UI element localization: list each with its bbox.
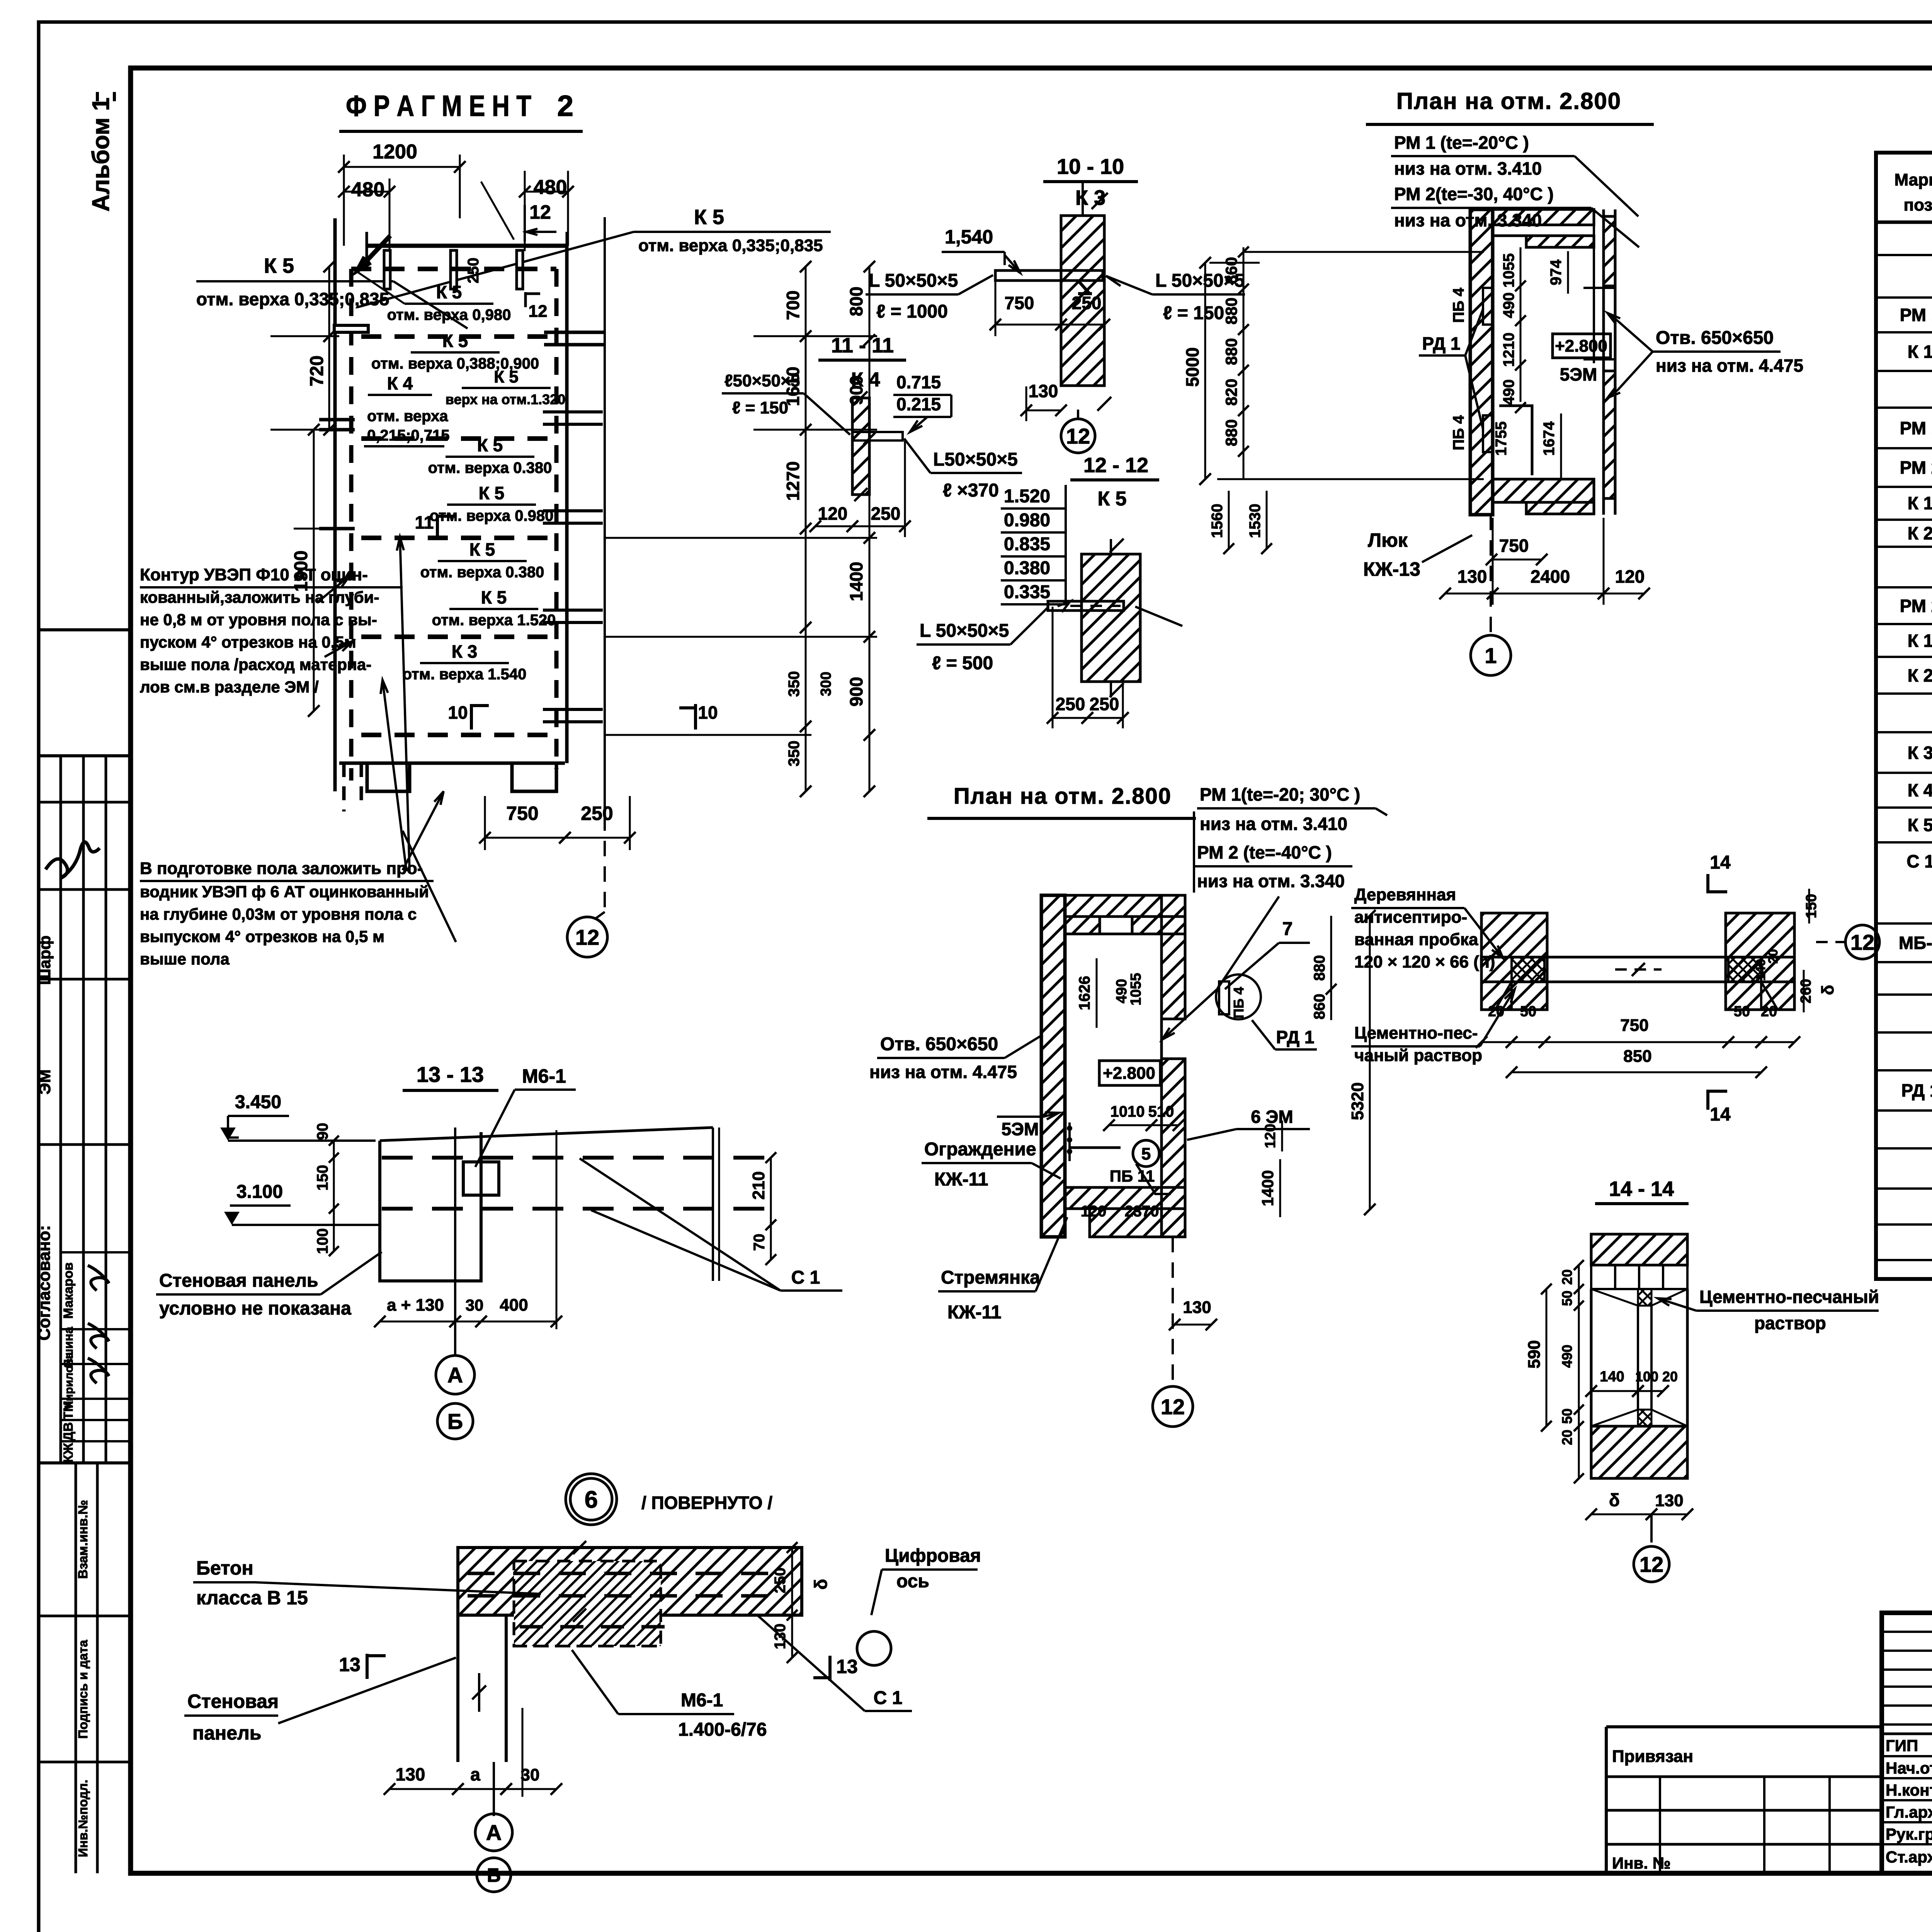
svg-text:ℓ = 1000: ℓ = 1000 [876,301,948,322]
svg-text:Цементно-пес-: Цементно-пес- [1354,1024,1478,1043]
svg-text:К 2: К 2 [1908,523,1932,543]
svg-text:70: 70 [751,1234,768,1251]
svg-text:отм. верха 0.380: отм. верха 0.380 [428,459,552,476]
13-13 right dims [718,1128,720,1281]
svg-text:0.715: 0.715 [896,372,941,392]
svg-text:Люк: Люк [1368,529,1408,551]
svg-text:12: 12 [575,925,599,949]
svg-text:3.450: 3.450 [235,1092,281,1112]
svg-text:А: А [486,1820,502,1845]
svg-text:750: 750 [506,803,538,824]
svg-text:20: 20 [1559,1430,1575,1445]
svg-text:Рук.гр.: Рук.гр. [1886,1825,1932,1843]
title block outline [1882,1613,1932,1873]
plug detail left block [1481,913,1547,1010]
svg-text:ванная пробка: ванная пробка [1354,930,1478,949]
svg-text:3.100: 3.100 [236,1182,283,1202]
axis 13-13 [454,1128,456,1349]
approval signatures [84,1265,111,1293]
svg-text:антисептиро-: антисептиро- [1354,908,1467,927]
svg-text:М6-1: М6-1 [522,1065,566,1087]
svg-text:Б: Б [487,1864,501,1886]
svg-text:Взам.инв.№: Взам.инв.№ [76,1500,90,1579]
svg-text:верх на отм.1.320: верх на отм.1.320 [446,391,565,407]
svg-text:1: 1 [1485,643,1497,668]
svg-text:низ на отм. 3.410: низ на отм. 3.410 [1200,814,1347,834]
svg-text:низ на отм. 3.410: низ на отм. 3.410 [1394,158,1542,179]
svg-text:480: 480 [534,176,567,199]
svg-text:250: 250 [465,258,482,284]
svg-text:К 5: К 5 [1097,488,1126,510]
svg-text:1755: 1755 [1493,422,1510,456]
svg-text:К 1: К 1 [1908,631,1932,651]
svg-text:раствор: раствор [1754,1313,1826,1333]
node 6 step [514,1645,661,1648]
svg-text:выше пола /расход материа-: выше пола /расход материа- [140,655,371,673]
plan top opening right [1593,209,1595,363]
svg-text:ПБ 4: ПБ 4 [1450,415,1467,451]
svg-text:низ на отм. 3.340: низ на отм. 3.340 [1197,871,1345,891]
svg-text:480: 480 [351,179,385,201]
section 12-12 plate [1048,601,1124,611]
svg-text:5ЭМ: 5ЭМ [1560,364,1597,384]
svg-text:Стеновая панель: Стеновая панель [159,1270,318,1291]
svg-text:12: 12 [529,302,548,321]
svg-text:К 3: К 3 [1908,743,1932,763]
svg-text:490: 490 [1500,293,1517,318]
svg-text:880: 880 [1222,419,1240,446]
svg-text:низ на отм. 4.475: низ на отм. 4.475 [869,1062,1017,1082]
node 6 embedded zone [514,1561,661,1646]
svg-text:отм. верха: отм. верха [367,408,448,425]
svg-text:Гл.арх.: Гл.арх. [1886,1803,1932,1821]
svg-text:590: 590 [1525,1340,1544,1368]
node 6 rebar dashes [468,1572,495,1575]
svg-text:Нач.ота.: Нач.ота. [1886,1759,1932,1777]
svg-text:510: 510 [1148,1103,1174,1120]
section 10-10 wall [1061,216,1104,386]
svg-text:К 5: К 5 [694,206,724,229]
svg-text:Контур УВЭП Ф10 АТ оцин-: Контур УВЭП Ф10 АТ оцин- [140,565,368,584]
svg-text:К 1: К 1 [1908,342,1932,362]
svg-text:а + 130: а + 130 [387,1296,444,1315]
svg-text:12: 12 [1639,1552,1663,1577]
section 14-14 left dims [1578,1265,1580,1478]
svg-text:Цифровая: Цифровая [885,1546,981,1566]
left dimension chain [328,267,330,336]
svg-text:ЭМ: ЭМ [36,1070,54,1095]
svg-text:1010: 1010 [1111,1103,1145,1120]
svg-text:720: 720 [307,355,327,386]
svg-text:5ЭМ: 5ЭМ [1002,1119,1039,1139]
svg-text:130: 130 [396,1764,425,1784]
svg-text:К 5: К 5 [442,331,468,351]
fragment 2 dashed chamber lines [361,334,556,339]
svg-text:250: 250 [1090,694,1119,714]
svg-text:130: 130 [1183,1298,1211,1317]
svg-text:900: 900 [846,677,866,707]
fragment 2 leader into plan [481,182,514,240]
rebar rows 13-13 [382,1156,413,1160]
svg-text:260: 260 [1798,979,1814,1003]
svg-text:1.400-6/76: 1.400-6/76 [678,1719,767,1740]
svg-text:Альбом 1: Альбом 1 [88,97,114,211]
svg-text:Стремянка: Стремянка [941,1267,1040,1288]
svg-text:1400: 1400 [846,562,866,601]
node 6 right dims [791,1548,793,1615]
svg-text:ПБ 4: ПБ 4 [1231,987,1247,1019]
plan top walls [1470,209,1493,515]
svg-text:на глубине 0,03м от уровня по: на глубине 0,03м от уровня пола с [140,905,417,923]
svg-text:2370: 2370 [1125,1203,1159,1220]
svg-text:300: 300 [818,672,834,696]
svg-text:L 50×50×5: L 50×50×5 [920,621,1009,641]
svg-text:ДВ: ДВ [61,1422,76,1441]
svg-text:0.980: 0.980 [1004,510,1050,531]
svg-text:6: 6 [585,1486,598,1513]
svg-text:В подготовке пола заложить про: В подготовке пола заложить про- [140,859,423,878]
svg-text:КЖ: КЖ [61,1443,76,1463]
svg-text:К 5: К 5 [481,587,507,607]
svg-text:ТМ: ТМ [61,1401,76,1420]
node 6 wall below [456,1615,459,1762]
+2.800 center box [1099,1061,1160,1085]
svg-text:1055: 1055 [1500,253,1517,288]
svg-text:+2.800: +2.800 [1103,1064,1155,1083]
svg-text:Б: Б [447,1409,463,1434]
svg-text:Подпись и дата: Подпись и дата [76,1640,90,1739]
svg-text:поз.: поз. [1904,196,1932,214]
svg-text:490: 490 [1114,979,1130,1003]
svg-text:1.520: 1.520 [1004,486,1050,507]
svg-text:отм. верха 0,980: отм. верха 0,980 [387,306,511,323]
panel 13-13 outline [380,1132,481,1281]
svg-text:860: 860 [1222,257,1240,284]
svg-text:РМ 2: РМ 2 [1900,596,1932,616]
svg-text:0.380: 0.380 [1004,558,1050,578]
node 6 slab [458,1548,802,1615]
svg-text:панель: панель [192,1722,262,1744]
svg-text:не 0,8 м от уровня пола с вы-: не 0,8 м от уровня пола с вы- [140,611,377,629]
svg-text:План на отм. 2.800: План на отм. 2.800 [954,784,1172,809]
plan top left dim chains [1204,263,1206,479]
svg-text:150: 150 [314,1165,331,1191]
svg-text:820: 820 [1222,379,1240,406]
svg-text:К 5: К 5 [264,254,294,277]
svg-text:С 1: С 1 [1906,851,1932,871]
node 6 mark [570,1478,612,1520]
plan center bottom wall [1065,1187,1185,1209]
svg-text:ПБ 4: ПБ 4 [1450,287,1467,323]
svg-text:750: 750 [1620,1016,1648,1035]
svg-text:0.215: 0.215 [896,394,941,414]
svg-text:Макаров: Макаров [61,1262,76,1319]
svg-text:700: 700 [783,291,803,320]
svg-text:РМ 2: РМ 2 [1900,457,1932,478]
svg-text:Отв. 650×650: Отв. 650×650 [880,1034,998,1054]
svg-text:К 4: К 4 [1908,780,1932,800]
svg-text:ось: ось [896,1571,929,1592]
svg-text:Цементно-песчаный: Цементно-песчаный [1699,1287,1879,1307]
svg-text:а: а [470,1764,480,1784]
M6-1 box [463,1162,499,1195]
svg-text:5: 5 [1141,1145,1151,1163]
svg-text:490: 490 [1500,379,1517,405]
svg-text:кованный,заложить на глуби-: кованный,заложить на глуби- [140,588,379,606]
svg-text:20: 20 [1559,1269,1575,1285]
svg-text:Ограждение: Ограждение [924,1139,1036,1160]
svg-text:130: 130 [1458,566,1487,587]
dashed top row [351,267,556,271]
plug detail triangles [1495,982,1512,1009]
svg-text:250: 250 [1072,293,1102,313]
svg-text:РМ 1: РМ 1 [1900,418,1932,438]
svg-text:1674: 1674 [1541,421,1558,456]
svg-text:750: 750 [1005,293,1034,313]
svg-text:20: 20 [1488,1003,1504,1020]
svg-text:12: 12 [1066,424,1090,448]
svg-text:100: 100 [314,1228,331,1254]
svg-text:+2.800: +2.800 [1555,337,1607,355]
svg-text:13 - 13: 13 - 13 [417,1062,484,1087]
svg-text:отм. верха 0.380: отм. верха 0.380 [420,564,544,581]
svg-text:850: 850 [1623,1047,1651,1066]
section 11-11 plate [852,432,903,440]
svg-text:14: 14 [1710,1104,1731,1125]
svg-text:РД 1: РД 1 [1422,333,1461,354]
section 14-14 top wall [1591,1234,1687,1265]
svg-text:К 5: К 5 [479,483,504,503]
axis circle 1 [1490,515,1492,634]
svg-text:2400: 2400 [1531,566,1570,587]
svg-text:7: 7 [1282,919,1293,939]
svg-text:120: 120 [818,503,848,524]
13-13 left dims [333,1141,335,1251]
svg-text:250: 250 [772,1568,789,1594]
svg-text:400: 400 [500,1296,528,1315]
svg-text:КЖ-11: КЖ-11 [934,1169,988,1190]
svg-text:0,215;0,715: 0,215;0,715 [367,427,450,444]
svg-text:1400: 1400 [1259,1170,1277,1206]
lower stamp sections [39,1461,131,1464]
svg-text:30: 30 [521,1765,540,1784]
svg-text:А: А [447,1363,463,1387]
svg-text:350: 350 [786,741,803,767]
svg-text:К 5: К 5 [436,282,462,302]
plan top inner dims [1520,247,1522,402]
svg-text:РМ 1(te=-20; 30°C ): РМ 1(te=-20; 30°C ) [1200,784,1360,804]
svg-text:250: 250 [871,503,901,524]
svg-text:13: 13 [339,1654,361,1675]
svg-text:50: 50 [1520,1003,1536,1020]
svg-text:лов см.в разделе ЭМ /: лов см.в разделе ЭМ / [140,678,319,696]
section 12-12 wall [1082,554,1140,682]
svg-text:120: 120 [1081,1203,1107,1220]
svg-text:М6-1: М6-1 [681,1690,723,1711]
svg-text:11: 11 [415,512,434,532]
svg-text:ГИП: ГИП [1886,1736,1918,1755]
svg-text:С 1: С 1 [874,1688,903,1708]
svg-text:12: 12 [529,201,551,223]
svg-text:120: 120 [1262,1124,1279,1148]
svg-text:δ: δ [811,1579,831,1590]
svg-text:РМ 1 (te=-20°C ): РМ 1 (te=-20°C ) [1394,133,1529,153]
svg-text:50: 50 [1559,1408,1575,1424]
section 14-14 cells [1590,1265,1592,1289]
svg-text:Привязан: Привязан [1612,1747,1693,1766]
svg-text:13: 13 [836,1656,858,1677]
svg-text:выпуском 4° отрезков на 0,5 м: выпуском 4° отрезков на 0,5 м [140,927,384,946]
svg-text:К 1: К 1 [1908,493,1932,513]
svg-text:140: 140 [1753,959,1768,981]
svg-text:750: 750 [1499,536,1529,556]
svg-text:100: 100 [1635,1369,1658,1384]
svg-text:класса В 15: класса В 15 [196,1587,308,1609]
PB4 detail circle center [1216,975,1261,1019]
svg-text:974: 974 [1548,259,1565,285]
svg-text:1626: 1626 [1076,976,1093,1010]
svg-text:РД 1: РД 1 [1901,1080,1932,1100]
svg-text:12: 12 [1850,930,1874,954]
svg-text:отм. верха 0,335;0,835: отм. верха 0,335;0,835 [638,236,823,255]
svg-text:К 3: К 3 [452,641,477,662]
svg-text:1200: 1200 [372,141,417,163]
svg-text:12 - 12: 12 - 12 [1083,454,1148,477]
left stamp strip [39,628,131,631]
svg-text:1270: 1270 [783,461,803,501]
svg-text:С 1: С 1 [791,1267,820,1288]
ladder symbol [1068,1122,1071,1161]
svg-text:1530: 1530 [1247,504,1264,538]
svg-text:δ: δ [1818,985,1837,995]
plan top bottom cap [1493,479,1594,502]
svg-text:1,540: 1,540 [945,226,993,248]
svg-text:К 5: К 5 [1908,815,1932,835]
svg-text:отм. верха 1.520: отм. верха 1.520 [432,612,556,629]
node 6 break mark [478,1673,480,1712]
svg-text:50: 50 [1734,1003,1750,1020]
svg-text:250: 250 [581,803,613,824]
svg-text:Шарф: Шарф [36,935,54,985]
svg-text:Инв.№подл.: Инв.№подл. [76,1780,90,1857]
fragment 2 bracket marks on right wall [543,410,603,413]
svg-text:12: 12 [1161,1395,1185,1419]
thick arrow to dashed corner [357,236,390,270]
section mark 12 bottom [604,815,606,912]
svg-text:5000: 5000 [1182,347,1202,387]
signature squiggle top [46,842,100,878]
fragment 2 plan bottom [339,762,565,765]
svg-text:0.335: 0.335 [1004,582,1050,602]
spec table grid [1876,153,1932,1279]
svg-text:14 - 14: 14 - 14 [1609,1177,1674,1201]
svg-text:0.835: 0.835 [1004,534,1050,554]
svg-text:10 - 10: 10 - 10 [1057,154,1124,179]
plan center right dims [1330,916,1332,1020]
right dimension chains [805,267,807,791]
leader arrows from notes [403,831,456,942]
svg-text:14: 14 [1710,852,1731,873]
svg-text:L 50×50×5: L 50×50×5 [869,270,958,291]
svg-text:L50×50×5: L50×50×5 [933,449,1018,470]
svg-text:20: 20 [1761,1003,1777,1020]
svg-text:860: 860 [1311,994,1328,1020]
svg-text:Отв. 650×650: Отв. 650×650 [1656,328,1774,348]
svg-text:ℓ ×370: ℓ ×370 [943,480,999,501]
svg-text:5320: 5320 [1348,1082,1367,1120]
svg-text:МБ-1: МБ-1 [1899,933,1932,953]
svg-text:чаный раствор: чаный раствор [1354,1046,1482,1065]
svg-text:План на отм. 2.800: План на отм. 2.800 [1396,88,1621,114]
circle 12 plug [1845,925,1879,959]
svg-text:К 3: К 3 [1075,186,1105,209]
svg-text:К 5: К 5 [477,435,503,455]
+2.800 box [1553,334,1611,358]
circle 12 under 10-10 [1061,419,1095,453]
svg-text:выше пола: выше пола [140,950,230,968]
privyazan annex [1606,1725,1882,1728]
plan center walls [1041,895,1065,1237]
svg-text:РД 1: РД 1 [1276,1027,1315,1047]
plug detail member [1481,956,1794,959]
svg-text:отм. верха 1.540: отм. верха 1.540 [403,666,527,683]
node 6 axis circles [493,1762,495,1816]
svg-text:150: 150 [1803,894,1820,918]
svg-text:490: 490 [1559,1345,1575,1368]
svg-text:Ф Р А Г М Е Н Т: Ф Р А Г М Е Н Т [346,90,531,122]
svg-text:1560: 1560 [1209,504,1226,538]
svg-text:ℓ50×50×5: ℓ50×50×5 [724,371,800,390]
svg-text:Бетон: Бетон [196,1557,253,1579]
svg-text:Н.контр.: Н.контр. [1886,1781,1932,1799]
svg-text:пуском 4° отрезков на 0,5м: пуском 4° отрезков на 0,5м [140,633,356,651]
svg-text:КЖ-11: КЖ-11 [947,1302,1001,1323]
svg-text:Согласовано:: Согласовано: [35,1225,54,1341]
section 14-14 bottom wall [1591,1426,1687,1478]
svg-text:К 5: К 5 [494,367,519,386]
section 14-14 shaft [1590,1289,1593,1426]
svg-text:6 ЭМ: 6 ЭМ [1251,1107,1293,1127]
svg-text:Ст.арх.: Ст.арх. [1886,1848,1932,1866]
svg-text:30: 30 [466,1296,484,1314]
svg-text:11 - 11: 11 - 11 [831,334,894,357]
svg-text:К 4: К 4 [851,369,880,391]
svg-text:140: 140 [1600,1369,1624,1385]
svg-text:130: 130 [1029,381,1058,401]
title block small grid [1882,1631,1932,1633]
svg-text:ℓ = 500: ℓ = 500 [932,653,993,673]
svg-text:880: 880 [1222,298,1240,325]
fragment 2 left wall brackets [334,325,368,332]
svg-text:210: 210 [749,1171,768,1199]
section 10-10 plate [995,270,1103,281]
svg-text:50: 50 [1559,1291,1575,1306]
svg-text:1210: 1210 [1500,333,1517,367]
svg-text:20: 20 [1662,1369,1678,1384]
svg-text:К 2: К 2 [1908,665,1932,685]
svg-text:1055: 1055 [1128,973,1144,1006]
svg-text:Инв. №: Инв. № [1612,1854,1671,1872]
plan center opening [1069,1146,1121,1149]
svg-text:Марка: Марка [1894,170,1932,189]
svg-text:/ ПОВЕРНУТО /: / ПОВЕРНУТО / [641,1493,772,1513]
svg-text:350: 350 [786,671,803,697]
svg-text:К 5: К 5 [469,539,495,560]
svg-text:РМ 2 (te=-40°C ): РМ 2 (te=-40°C ) [1197,842,1332,862]
section 11-11 wall [852,398,869,495]
svg-text:130: 130 [772,1624,789,1650]
svg-text:δ: δ [1609,1490,1620,1510]
